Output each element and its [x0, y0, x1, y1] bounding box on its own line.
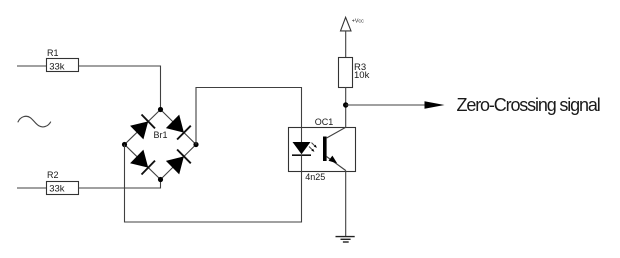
- resistor R1: [47, 59, 79, 72]
- wire bridge left node to opto LED cathode (bottom loop): [125, 145, 302, 223]
- resistor R3: [339, 58, 353, 88]
- OC1 LED anode pin wire: [301, 128, 303, 143]
- svg-text:Br1: Br1: [154, 130, 168, 140]
- wire Vcc to R3: [345, 31, 347, 57]
- wire R2 left stub: [17, 187, 47, 189]
- diode Br1 top-right: [166, 115, 191, 140]
- svg-text:4n25: 4n25: [305, 172, 325, 182]
- OC1 transistor collector wire: [327, 105, 346, 138]
- wire emitter to ground: [345, 171, 347, 237]
- OC1 LED triangle: [293, 142, 311, 154]
- junction dot bridge top node: [158, 107, 163, 112]
- svg-text:R1: R1: [47, 48, 59, 58]
- OC1 light arrow upper: [312, 143, 317, 148]
- wire R3 to output node: [345, 87, 347, 105]
- wire R2 to bridge bottom: [79, 180, 161, 189]
- OC1 LED cathode pin wire: [301, 155, 303, 171]
- wire R1 left stub: [17, 65, 47, 67]
- svg-text:33k: 33k: [49, 62, 65, 73]
- diode Br1 top-left: [130, 115, 155, 140]
- svg-text:10k: 10k: [354, 70, 370, 81]
- bridge rectifier Br1 diamond frame: [125, 110, 197, 180]
- OC1 transistor emitter wire with arrow: [327, 156, 346, 171]
- svg-text:Zero-Crossing signal: Zero-Crossing signal: [457, 95, 600, 115]
- diode Br1 bottom-right: [166, 150, 191, 175]
- junction dot output node: [343, 102, 348, 107]
- wire R1 to bridge top: [79, 66, 161, 110]
- AC source symbol: [18, 116, 51, 127]
- power symbol +Vcc: [341, 17, 352, 31]
- OC1 phototransistor base bar: [323, 137, 327, 162]
- svg-text:R2: R2: [47, 170, 59, 180]
- wire bridge right node to opto LED anode: [196, 88, 302, 145]
- junction dot bridge right node: [193, 142, 198, 147]
- junction dot bridge left node: [122, 142, 127, 147]
- OC1 LED cathode bar: [292, 154, 311, 156]
- ground: [336, 237, 355, 242]
- wire output node to arrow: [346, 104, 425, 106]
- svg-text:OC1: OC1: [315, 117, 334, 127]
- OC1 light arrow lower: [309, 147, 314, 152]
- svg-text:+Vcc: +Vcc: [352, 18, 364, 24]
- junction dot bridge bottom node: [158, 177, 163, 182]
- svg-text:33k: 33k: [49, 184, 65, 195]
- output arrow head: [425, 101, 445, 109]
- resistor R2: [47, 182, 79, 195]
- diode Br1 bottom-left: [130, 150, 155, 175]
- optocoupler OC1 body: [289, 128, 356, 172]
